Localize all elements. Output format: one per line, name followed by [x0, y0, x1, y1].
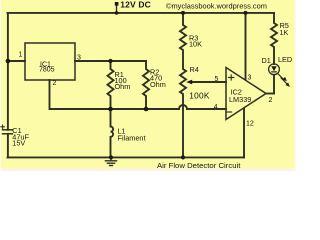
svg-text:LED: LED — [278, 55, 292, 64]
svg-text:LM339: LM339 — [229, 95, 251, 104]
svg-text:R4: R4 — [190, 65, 199, 74]
svg-text:12V DC: 12V DC — [120, 0, 151, 9]
svg-text:100K: 100K — [189, 90, 210, 100]
svg-text:Ohm: Ohm — [115, 82, 131, 91]
svg-text:1: 1 — [19, 52, 23, 59]
svg-text:3: 3 — [77, 54, 81, 61]
svg-text:7805: 7805 — [39, 67, 55, 74]
svg-text:Filament: Filament — [118, 134, 146, 143]
svg-text:15V: 15V — [12, 138, 25, 147]
svg-text:10K: 10K — [189, 40, 202, 49]
svg-text:Air Flow Detector Circuit: Air Flow Detector Circuit — [157, 161, 241, 170]
svg-text:D1: D1 — [262, 56, 271, 65]
svg-text:Ohm: Ohm — [150, 80, 166, 89]
svg-text:3: 3 — [248, 74, 252, 81]
svg-text:2: 2 — [269, 97, 273, 104]
svg-text:1K: 1K — [280, 28, 289, 37]
svg-text:4: 4 — [214, 104, 218, 111]
svg-text:©myclassbook.wordpress.com: ©myclassbook.wordpress.com — [166, 2, 267, 11]
svg-text:5: 5 — [215, 76, 219, 83]
svg-text:2: 2 — [53, 80, 57, 87]
svg-text:12: 12 — [246, 121, 254, 128]
